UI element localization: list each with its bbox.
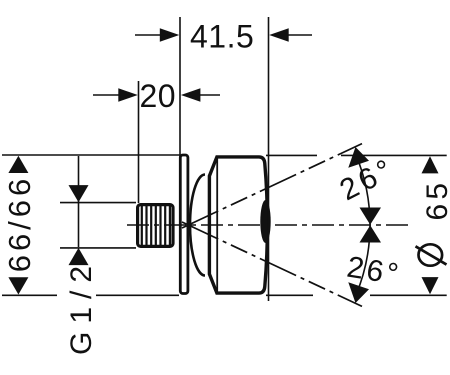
angle arrow upper tilted: [348, 147, 369, 168]
extension line top left: [2, 154, 180, 156]
jet body: [209, 157, 267, 293]
dimension diameter 65 arrow up: [422, 156, 439, 173]
dimension 41.5 arrow left: [160, 28, 180, 42]
svg-text:20: 20: [140, 78, 177, 114]
dimension 20 arrow right: [181, 88, 201, 102]
dimension 66/66 arrow down: [8, 277, 28, 294]
dimension 41.5 arrow right: [269, 28, 289, 42]
thread nipple: [138, 205, 173, 247]
dimension arc 26deg: [356, 156, 370, 295]
dimension 41.5 line right part: [288, 34, 312, 36]
svg-text:41.5: 41.5: [190, 18, 254, 54]
svg-text:G1/2: G1/2: [65, 258, 98, 355]
dimension 20 arrow left: [118, 88, 138, 102]
dimension 41.5 line left part: [135, 34, 161, 36]
dimension G1/2 arrow up: [69, 248, 89, 265]
extension line top right: [266, 154, 447, 156]
wall plate escutcheon: [180, 155, 188, 294]
spray angle ray lower: [182, 222, 362, 306]
dimension G1/2 line: [78, 156, 80, 247]
dimension G1/2 arrow down: [69, 185, 89, 202]
extension line wall face x180: [179, 17, 181, 160]
dimension 20 line left part: [93, 94, 120, 96]
extension line bottom right: [266, 294, 447, 296]
dimension diameter 65 arrow down: [422, 277, 439, 294]
extension line nozzle front x268.5: [268, 17, 270, 301]
thread hatch lines: [142, 206, 170, 246]
extension line thread start x138.5: [138, 81, 140, 203]
diameter symbol slash: [416, 246, 447, 264]
dimension 66/66 arrow up: [8, 156, 28, 173]
extension line bottom left: [2, 294, 179, 296]
spray angle ray upper: [182, 144, 362, 228]
angle arrow lower tilted: [348, 282, 369, 303]
svg-text:65: 65: [421, 179, 450, 221]
diameter symbol circle: [419, 244, 443, 265]
neck dome: [190, 175, 205, 276]
extension line thread top y202.6: [60, 202, 136, 204]
center line horizontal: [127, 224, 410, 226]
angle arrows hourglass upper: [360, 208, 382, 225]
angle arrows hourglass lower: [360, 225, 382, 242]
nozzle lens: [260, 200, 270, 243]
svg-text:66/66: 66/66: [2, 175, 37, 273]
extension line thread bottom y247.9: [60, 247, 136, 249]
body inner edge line: [216, 159, 218, 292]
dimension 20 line right part: [200, 94, 220, 96]
